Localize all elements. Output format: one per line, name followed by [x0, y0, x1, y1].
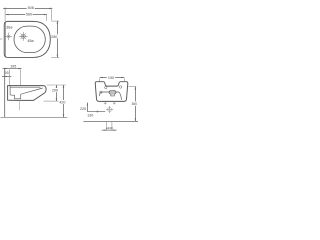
- svg-text:420: 420: [59, 101, 65, 105]
- plus marks below bottom: [104, 102, 116, 105]
- small dim below: drain: [107, 122, 112, 131]
- centerline tick at left edge: [0, 38, 2, 40]
- dim 560 line: [6, 14, 47, 16]
- inner cavity line: [99, 92, 121, 100]
- svg-text:220: 220: [80, 107, 86, 111]
- svg-text:130: 130: [87, 113, 93, 117]
- svg-text:45ø: 45ø: [27, 39, 34, 43]
- extension lines top dims: [5, 8, 51, 21]
- dim 560 arrows: [6, 14, 48, 16]
- basin interior: [10, 86, 43, 99]
- floor line: [1, 116, 68, 118]
- extension lines 55/195: [10, 69, 21, 85]
- long horizontal line (floor ref): [83, 120, 138, 122]
- svg-text:280: 280: [51, 35, 57, 39]
- wall line: [4, 68, 6, 117]
- dim 508 arrows: [3, 8, 53, 10]
- svg-text:508: 508: [28, 6, 34, 10]
- tap hole marker 36o: [5, 33, 12, 41]
- svg-text:200: 200: [52, 89, 58, 93]
- dim 420: [63, 85, 65, 117]
- svg-text:36ø: 36ø: [6, 25, 13, 29]
- svg-text:560: 560: [26, 13, 32, 17]
- dim 280 (right of plan): [56, 21, 58, 35]
- center target diamond: [106, 106, 113, 113]
- right dim 360: [128, 85, 136, 87]
- drain marker 45o: [19, 32, 28, 41]
- inner back deck line: [5, 22, 7, 57]
- fixture side profile outer: [8, 86, 47, 101]
- box below slot: [111, 94, 115, 96]
- central slot: [109, 91, 116, 94]
- body outline (plan): [4, 21, 50, 57]
- front outline: [95, 82, 128, 102]
- svg-text:ø100: ø100: [106, 126, 113, 130]
- inner rim line: [10, 86, 40, 88]
- dim 200: [55, 85, 57, 101]
- dim 190: [100, 77, 107, 79]
- extension lines 280: [51, 21, 59, 57]
- ext lines 190: [100, 78, 125, 82]
- left inner circle: [100, 91, 102, 93]
- dim 508 line: [3, 7, 52, 9]
- plus on 130 line: [96, 110, 99, 113]
- bowl stadium: [14, 26, 45, 52]
- dim 220 vertical: [86, 103, 88, 112]
- dim 130 horizontal: [87, 111, 105, 113]
- recess circles: [105, 86, 107, 88]
- svg-text:190: 190: [108, 76, 114, 80]
- svg-text:360: 360: [132, 102, 138, 106]
- trap centerline below: [19, 100, 21, 110]
- svg-text:55: 55: [5, 71, 9, 75]
- ext lines 200/420: [44, 85, 66, 101]
